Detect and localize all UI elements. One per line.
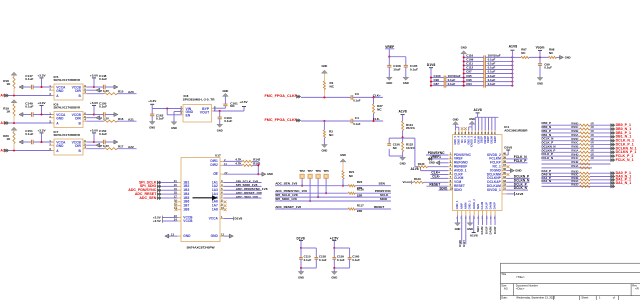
junction [13,94,15,96]
ground [171,122,177,130]
U17 pin names [183,159,218,238]
net label DA1_N_1 [616,181,632,185]
junction [323,96,325,98]
svg-text:R17: R17 [118,144,124,148]
wire [105,114,114,116]
power A1V8 rail [474,108,482,117]
net label FCLK_P_1 [616,154,634,158]
wire AINM [462,216,466,247]
svg-text:GND: GND [183,234,191,238]
net label DA0_N_1 [616,174,632,178]
svg-text:C111: C111 [466,62,473,66]
net label DCLK_N_1 [616,139,634,143]
resistor R143 4.7K [224,161,261,166]
junction [539,56,541,58]
svg-text:+2.5V: +2.5V [239,100,248,104]
IC6 SN74LVC1T45DBVR [54,102,84,127]
wire [162,189,178,191]
svg-text:TP7: TP7 [307,169,313,173]
ground (pin 13) [165,234,178,238]
svg-text:SN74LVC1T45DBVR: SN74LVC1T45DBVR [54,133,81,137]
net label SPI_SDIO_1V8 [224,183,262,187]
off-page connector [611,139,615,142]
junction [166,107,168,109]
svg-text:ADC3661IRSBR: ADC3661IRSBR [504,129,528,133]
svg-text:+2.5V: +2.5V [153,219,161,223]
capacitor C108 10uF [387,57,401,77]
svg-text:VCCA: VCCA [209,216,219,220]
svg-text:0.1uF: 0.1uF [488,70,496,74]
ground [114,85,118,89]
resistor RN3B 0R [571,176,590,181]
wire [257,161,259,174]
resistor R117 22R [348,203,364,213]
svg-text:RN6B: RN6B [571,129,578,133]
junction [402,136,404,138]
wire [33,114,54,116]
svg-text:DA0M: DA0M [489,226,493,235]
svg-text:22R: 22R [357,209,363,213]
capacitor C161 NC [223,96,238,108]
svg-text:RN4A: RN4A [571,164,578,168]
svg-text:<Title>: <Title> [516,275,525,279]
wire (EN) [167,109,181,122]
svg-text:DCLKAM: DCLKAM [487,184,501,188]
svg-text:C112: C112 [466,66,473,70]
power +3.3V [37,101,46,115]
svg-text:GND_6: GND_6 [466,135,470,144]
svg-text:DA1P: DA1P [484,226,488,234]
no-connect X (NC_1) [507,165,510,168]
net label SPI_SCLK [139,180,161,184]
no-connect X [224,204,227,207]
no-connect X [175,208,178,211]
wire [355,208,391,210]
svg-text:31: 31 [503,187,507,191]
svg-text:C94: C94 [466,82,472,86]
wire [590,147,611,149]
svg-text:38: 38 [503,159,507,163]
svg-text:D1V8: D1V8 [504,145,512,149]
net label DA0_N [542,173,552,177]
test point TP2 [299,169,305,186]
svg-text:DIR1: DIR1 [210,159,218,163]
net label DA1_N [542,179,552,183]
svg-text:EN: EN [186,114,191,118]
resistor R17 [104,144,124,149]
off-page connector [611,181,615,184]
svg-text:A0: A0 [0,93,5,97]
off-page connector [611,158,615,161]
power D1V8 [427,63,436,78]
svg-text:DCLK_P: DCLK_P [514,182,528,186]
net label DB0_P [542,121,552,125]
off-page connector [611,143,615,146]
wire [9,122,54,124]
svg-text:CLK-: CLK- [432,175,440,179]
power +2.5V [239,100,248,111]
wire [94,114,103,116]
net label CLK- [373,117,380,121]
svg-text:FCLK_P: FCLK_P [542,152,553,156]
wire [542,172,580,174]
net label ADC_SEN_1V8 [275,182,348,186]
wire [542,176,580,178]
svg-text:RN3B: RN3B [571,176,578,180]
svg-text:RN5D: RN5D [571,137,578,141]
svg-text:A3: A3 [504,287,508,291]
off-page connector [611,178,615,181]
svg-text:DB0_N: DB0_N [542,125,552,129]
wire [162,182,178,184]
capacitor C162 0.1uF [150,109,164,122]
svg-text:0.1uF: 0.1uF [25,132,33,136]
junction [372,120,374,122]
svg-text:39: 39 [503,155,507,159]
svg-text:SPI_SCLK_1V8: SPI_SCLK_1V8 [275,193,298,197]
net label RESET [374,205,384,209]
svg-text:0.1uF: 0.1uF [224,119,232,123]
net label DB1_P_1 [616,131,631,135]
svg-text:FCLK_P: FCLK_P [514,159,527,163]
svg-text:RN4B: RN4B [571,160,578,164]
svg-text:GND: GND [455,227,461,231]
svg-text:CLKM: CLKM [454,176,464,180]
svg-text:GND: GND [340,153,346,157]
wire [590,176,611,178]
resistor RN6A 0R [571,133,594,138]
wire [162,193,178,195]
svg-text:GND: GND [267,172,273,176]
resistor R20 1K [3,132,15,151]
net label A22 [128,145,134,149]
net label SEN [379,182,386,186]
svg-text:REFGND: REFGND [454,161,468,165]
net label PDN/SYNC [375,189,392,193]
wire [456,127,459,130]
svg-text:RN4D: RN4D [571,152,578,156]
svg-text:SPI_SDIO: SPI_SDIO [140,184,157,188]
net label ADC_PDN/SYNC [128,188,161,192]
svg-text:32: 32 [503,183,507,187]
ground [469,117,475,130]
wire (AVDD_1) [410,167,448,171]
svg-text:SEN: SEN [476,227,480,233]
svg-text:DIR: DIR [75,89,81,93]
svg-text:GND: GND [429,161,435,165]
svg-text:AINM: AINM [464,202,468,210]
svg-text:4.7K: 4.7K [235,157,242,161]
svg-text:R127: R127 [462,240,466,247]
svg-text:VREF: VREF [385,45,394,49]
svg-text:AINP: AINP [459,203,463,210]
svg-text:RESET: RESET [454,184,465,188]
wire [428,166,449,168]
svg-text:+3.3V: +3.3V [37,73,46,77]
svg-text:REFBUF: REFBUF [454,165,467,169]
junction [430,81,465,83]
wire [590,128,611,130]
svg-text:A21: A21 [128,117,134,121]
svg-text:R142: R142 [253,157,260,161]
svg-text:CLK+: CLK+ [373,93,381,97]
svg-text:A1V8: A1V8 [410,167,418,171]
wire row [542,164,593,169]
junction [13,122,15,124]
wire [529,56,549,58]
svg-text:A1V8: A1V8 [470,234,478,238]
wire (B output) [87,120,105,122]
capacitor C4 0.1uF [351,116,361,126]
wire [542,155,580,157]
power arrow [11,72,17,76]
junction [430,77,465,79]
wire [512,56,521,58]
resistor RN3D 0R [571,169,590,174]
wire [117,93,137,95]
svg-text:GND: GND [386,81,392,85]
svg-text:1A8: 1A8 [212,207,218,211]
net label ADC_SEN_1V8 [224,195,262,199]
svg-text:0.1uF: 0.1uF [353,122,361,126]
title block text [501,272,638,300]
svg-text:AVDD_1: AVDD_1 [454,168,467,172]
net label VREF [385,45,394,57]
svg-text:<R: <R [635,287,639,291]
svg-text:NC: NC [377,108,382,112]
junction [463,64,514,66]
capacitor C100 10V/10uF [431,74,464,80]
ground (REFGND) [429,161,448,165]
resistor RN6D 0R [571,121,594,126]
wire [389,138,415,156]
wire [355,192,391,194]
resistor R98 NC [549,48,557,59]
resistor RN3A 0R [571,179,590,184]
svg-text:0.1uF: 0.1uF [488,58,496,62]
op U17 SN74AXC8T245PW [181,154,221,250]
power A1V8 [470,216,478,238]
svg-text:DA1_N: DA1_N [542,179,552,183]
svg-text:0.1uF: 0.1uF [25,104,33,108]
net label DCLKN_N_1 [616,146,637,150]
wire [590,140,611,142]
wire [355,185,391,187]
wire [590,136,611,138]
svg-text:FCLK_P_1: FCLK_P_1 [616,154,634,158]
svg-text:0.1uF: 0.1uF [544,66,552,70]
svg-text:GND: GND [56,117,64,121]
capacitor C150 0.1uF [99,101,107,116]
svg-text:SEN: SEN [379,182,386,186]
IC4 pin names [454,153,502,192]
capacitor C105 0.1uF [404,64,418,77]
junction [463,68,514,70]
op-amp IC4 ADC3661IRSBR [453,125,529,210]
wire [590,132,611,134]
resistor R130 [418,162,428,168]
wire [105,141,114,143]
net label A20 [128,90,134,94]
junction [257,164,259,175]
svg-text:SPX3819M5-L-2-5_TR: SPX3819M5-L-2-5_TR [183,97,215,101]
junction [93,86,95,88]
svg-text:4.7K: 4.7K [235,161,242,165]
net label CLK+ [373,93,381,97]
svg-text:+3.3V: +3.3V [37,128,46,132]
svg-text:GND: GND [222,89,228,93]
svg-text:Title: Title [501,272,506,276]
ground [455,216,461,232]
ground [19,85,23,89]
wire (to REFBUF) [415,138,418,167]
wire [9,95,54,97]
svg-text:+5.0V: +5.0V [90,101,99,105]
svg-text:RN3D: RN3D [571,169,578,173]
net label PDN/SYNC [426,151,448,155]
svg-text:R117: R117 [357,203,364,207]
capacitor C147 0.1uF [25,74,33,89]
svg-text:GND_5: GND_5 [453,135,457,144]
net label CLK- [430,175,448,179]
svg-text:NC_1: NC_1 [492,165,501,169]
svg-text:DB1M: DB1M [476,135,480,143]
wire [301,120,351,122]
net label DB0_N_1 [616,127,632,131]
power P3.3V flag [96,88,109,93]
svg-text:DB2M: DB2M [490,135,494,143]
wire (DIR pin) [87,144,96,146]
svg-text:DB1_N: DB1_N [542,133,552,137]
pin stubs right [83,112,87,122]
svg-text:0.1uF: 0.1uF [156,116,164,120]
net label DCLKN_N [507,178,530,182]
junction [372,96,374,98]
junction [317,196,319,198]
svg-text:GND: GND [149,126,155,130]
svg-text:SN74LVC1T45DBVR: SN74LVC1T45DBVR [54,105,81,109]
net label DA1_P_1 [616,178,631,182]
svg-text:GND: GND [469,117,475,121]
ground [262,172,273,176]
svg-text:0.1uF: 0.1uF [488,78,496,82]
svg-text:GND: GND [515,169,521,173]
svg-text:DB0P: DB0P [486,136,490,143]
svg-text:<Doc>: <Doc> [516,287,525,291]
svg-text:DA1M: DA1M [480,201,484,209]
net label SPI_SCLK_1V8 [275,193,391,197]
svg-text:0.1uF: 0.1uF [448,82,456,86]
svg-text:NC: NC [329,133,334,137]
rail A1V8 [511,57,513,85]
resistor R116 22R [348,188,364,198]
svg-text:NC_2: NC_2 [460,135,464,142]
junction [93,141,95,143]
svg-text:A1V8: A1V8 [399,109,407,113]
svg-text:0.1uF: 0.1uF [25,77,33,81]
net label RESET [427,182,449,186]
net label A21 [128,117,134,121]
svg-text:1B2: 1B2 [183,184,189,188]
power arrow [11,100,17,104]
power +5.0V [87,73,100,87]
ground [537,78,543,86]
junction [325,192,327,194]
capacitor C94 0.1uF [464,82,513,88]
svg-text:Vcom: Vcom [536,45,545,49]
wire (OE) [224,173,262,175]
svg-text:+2.5V: +2.5V [330,236,339,240]
svg-text:37: 37 [503,163,507,167]
svg-text:C96: C96 [466,78,472,82]
svg-text:Sheet: Sheet [581,296,588,300]
resistor RN6B 0R [571,129,594,134]
net label SPI_SDIO [140,184,161,188]
ground (pin 12) [224,234,234,238]
wire [353,96,383,98]
power A1V8 [399,109,407,121]
svg-text:SN74LVC1T45DBVR: SN74LVC1T45DBVR [54,78,81,82]
net label ADC_RESET [135,192,162,196]
svg-text:ADC_SEN_1V8: ADC_SEN_1V8 [275,182,297,186]
resistor R19 1K [3,104,15,123]
resistor R27 NC [372,97,383,121]
junction [463,81,514,83]
wire (DIR pin) [87,89,96,91]
net label DB0_N [542,125,552,129]
svg-text:GND: GND [467,227,473,231]
svg-text:ADC_SEN: ADC_SEN [139,196,156,200]
capacitor C152 0.1uF [99,129,107,144]
ground [114,113,118,117]
svg-text:R116: R116 [357,188,364,192]
capacitor C95 0.1uF [464,74,513,80]
ground [321,145,327,153]
svg-text:0.1uF: 0.1uF [488,66,496,70]
wire [557,56,560,58]
svg-text:GND: GND [461,46,467,50]
resistor R15 [104,89,124,94]
svg-text:33: 33 [503,179,507,183]
wire [590,182,611,184]
off-page connector [611,175,615,178]
ground [386,77,392,85]
net label A1 (input) [0,121,8,125]
off-page connector [611,154,615,157]
svg-text:GND_1: GND_1 [455,200,459,209]
svg-text:RN4C: RN4C [571,156,578,160]
net label DB1_N [542,133,552,137]
svg-text:SN74AXC8T245PW: SN74AXC8T245PW [186,245,214,249]
wire [105,86,114,88]
svg-text:DB1_N_1: DB1_N_1 [616,135,632,139]
svg-text:GND: GND [321,149,327,153]
capacitor C163 0.1uF [218,111,233,124]
ground [461,46,467,58]
wire [117,148,137,150]
svg-text:A1V8: A1V8 [509,45,518,49]
junction [463,72,514,74]
net label ADC_RESET_1V8 [224,191,263,195]
svg-text:CLKP: CLKP [454,172,464,176]
svg-text:RN3A: RN3A [571,179,578,183]
svg-text:ADC_PDN/SYNC_1V8: ADC_PDN/SYNC_1V8 [275,189,307,193]
resistor RN5C 0R [571,141,594,146]
svg-text:A1V8: A1V8 [474,108,482,112]
pin stubs right [83,139,87,149]
svg-text:0.1uF: 0.1uF [352,258,360,262]
svg-text:1B4: 1B4 [183,192,189,196]
